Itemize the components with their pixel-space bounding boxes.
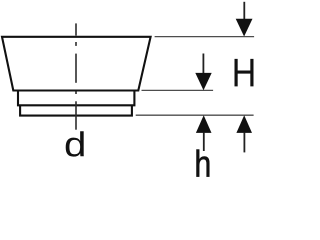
extension line top (level of body top) — [155, 36, 255, 38]
label h — [197, 150, 210, 177]
centerline (dash-dot vertical axis) — [75, 23, 77, 129]
collar ring 2 (lower step) — [20, 105, 132, 115]
arrow down onto top line (overall height, upper arrow) — [236, 2, 253, 37]
arrow up onto bottom line (lower arrow of h dimension) — [196, 115, 212, 151]
collar ring 1 (upper step) — [18, 91, 134, 106]
extension line middle (level of taper bottom) — [142, 89, 214, 91]
arrow up onto bottom line (overall height, lower arrow) — [236, 115, 252, 152]
label d — [66, 131, 84, 156]
body outline (tapered sleeve cross-section) — [2, 37, 151, 91]
extension line bottom (level of body bottom) — [136, 114, 254, 116]
arrow down onto middle line (upper arrow of h dimension) — [195, 54, 211, 91]
label H — [235, 59, 254, 86]
